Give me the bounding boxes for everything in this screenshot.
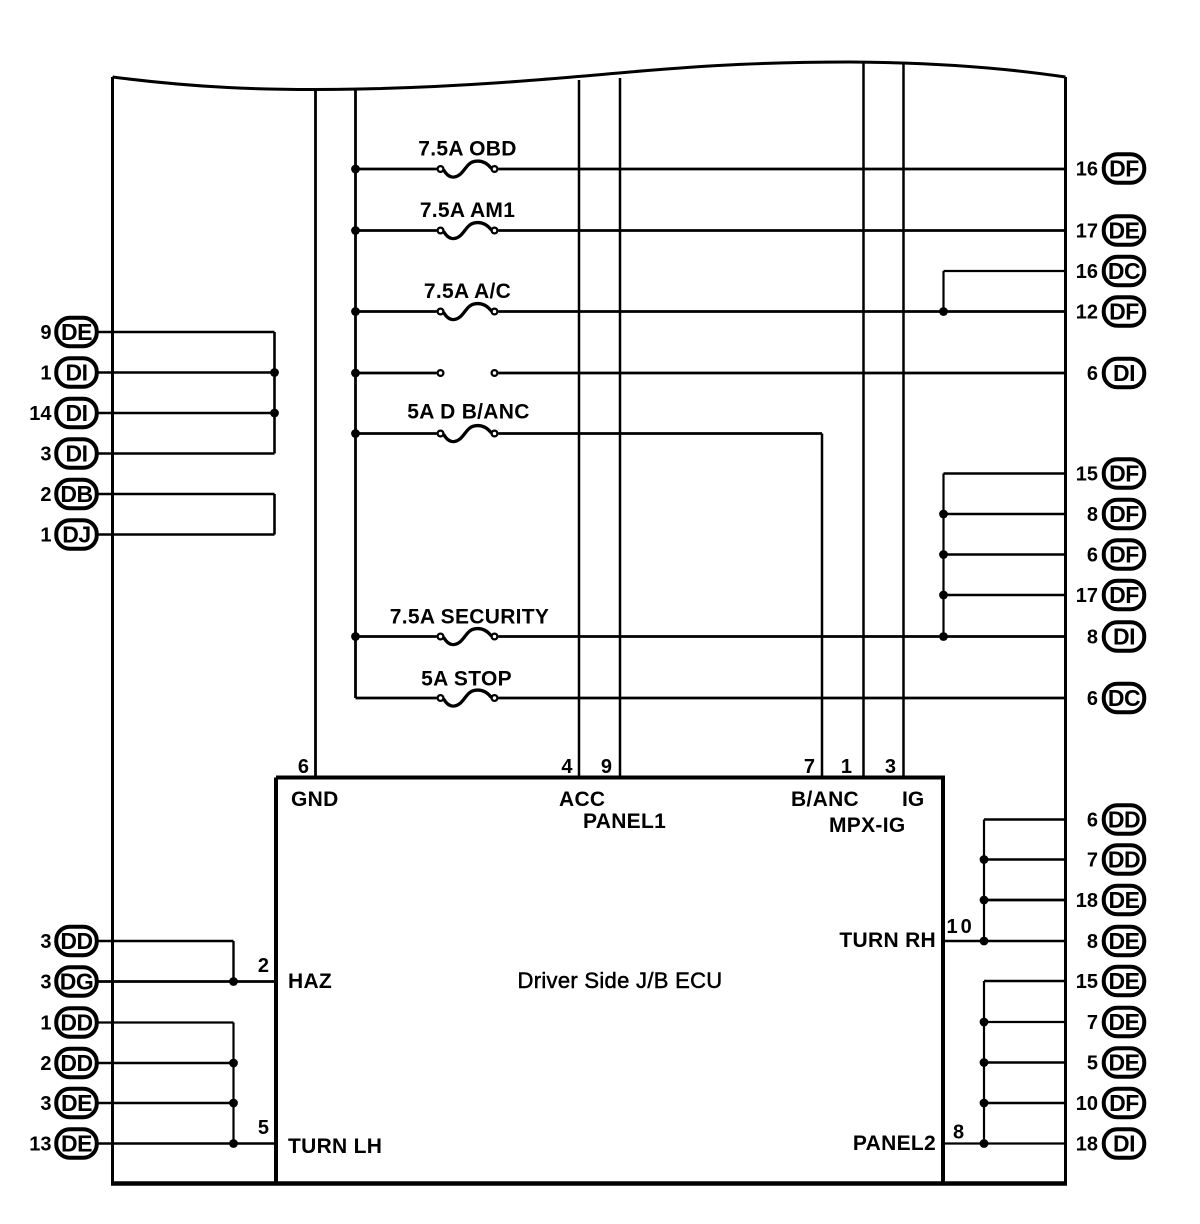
svg-text:10: 10 (947, 916, 975, 938)
svg-text:DC: DC (1108, 258, 1140, 284)
svg-text:DE: DE (61, 1090, 92, 1116)
svg-text:DI: DI (1113, 360, 1135, 386)
svg-text:DD: DD (60, 1050, 92, 1076)
svg-text:DI: DI (66, 441, 88, 467)
svg-text:13: 13 (29, 1134, 51, 1156)
svg-text:DD: DD (1108, 807, 1140, 833)
svg-text:16: 16 (1076, 261, 1098, 283)
svg-text:18: 18 (1076, 1134, 1098, 1156)
svg-text:DE: DE (1109, 1050, 1140, 1076)
svg-text:1: 1 (841, 756, 852, 778)
svg-text:TURN RH: TURN RH (839, 929, 936, 952)
svg-text:7.5A OBD: 7.5A OBD (418, 138, 516, 161)
svg-text:DB: DB (60, 481, 92, 507)
svg-text:7: 7 (1087, 850, 1098, 872)
svg-text:DG: DG (60, 969, 94, 995)
svg-text:16: 16 (1076, 159, 1098, 181)
svg-text:DC: DC (1108, 685, 1140, 711)
svg-text:DF: DF (1109, 299, 1139, 325)
svg-text:DI: DI (66, 360, 88, 386)
svg-text:5: 5 (258, 1117, 269, 1139)
svg-text:ACC: ACC (559, 788, 605, 811)
svg-text:14: 14 (29, 403, 52, 425)
svg-text:5A D B/ANC: 5A D B/ANC (407, 401, 529, 424)
svg-text:PANEL2: PANEL2 (853, 1132, 936, 1155)
svg-text:7.5A SECURITY: 7.5A SECURITY (390, 606, 550, 629)
svg-text:DE: DE (61, 1131, 92, 1157)
svg-text:6: 6 (1087, 810, 1098, 832)
svg-text:3: 3 (40, 444, 51, 466)
svg-text:3: 3 (885, 756, 896, 778)
svg-text:7.5A AM1: 7.5A AM1 (420, 199, 515, 222)
svg-text:6: 6 (1087, 688, 1098, 710)
svg-text:DI: DI (1113, 1131, 1135, 1157)
svg-text:DF: DF (1109, 542, 1139, 568)
svg-text:8: 8 (1087, 504, 1098, 526)
svg-text:9: 9 (601, 756, 612, 778)
svg-text:15: 15 (1076, 464, 1098, 486)
svg-text:9: 9 (40, 322, 51, 344)
svg-text:2: 2 (40, 1053, 51, 1075)
svg-text:DE: DE (1109, 1009, 1140, 1035)
svg-text:8: 8 (1087, 931, 1098, 953)
svg-text:2: 2 (258, 955, 269, 977)
svg-text:DF: DF (1109, 582, 1139, 608)
svg-text:4: 4 (561, 756, 573, 778)
svg-text:5: 5 (1087, 1053, 1098, 1075)
svg-text:6: 6 (1087, 363, 1098, 385)
svg-text:DE: DE (1109, 968, 1140, 994)
svg-text:7: 7 (804, 756, 815, 778)
svg-text:IG: IG (902, 788, 924, 811)
svg-text:17: 17 (1076, 585, 1098, 607)
svg-text:15: 15 (1076, 971, 1098, 993)
svg-text:12: 12 (1076, 302, 1098, 324)
svg-text:7: 7 (1087, 1012, 1098, 1034)
svg-text:HAZ: HAZ (288, 970, 332, 993)
svg-text:DF: DF (1109, 501, 1139, 527)
svg-text:DE: DE (61, 319, 92, 345)
svg-text:MPX-IG: MPX-IG (829, 814, 905, 837)
svg-text:DJ: DJ (62, 522, 90, 548)
svg-text:DD: DD (60, 1010, 92, 1036)
svg-text:PANEL1: PANEL1 (583, 810, 666, 833)
svg-text:DI: DI (66, 400, 88, 426)
svg-text:1: 1 (40, 1013, 51, 1035)
svg-text:6: 6 (1087, 545, 1098, 567)
svg-text:18: 18 (1076, 890, 1098, 912)
svg-text:5A STOP: 5A STOP (421, 668, 512, 691)
svg-text:DD: DD (1108, 847, 1140, 873)
svg-text:DD: DD (60, 928, 92, 954)
svg-text:6: 6 (298, 756, 309, 778)
svg-text:3: 3 (40, 972, 51, 994)
svg-text:3: 3 (40, 1093, 51, 1115)
svg-text:Driver Side J/B ECU: Driver Side J/B ECU (518, 968, 723, 993)
svg-text:DE: DE (1109, 928, 1140, 954)
svg-text:TURN LH: TURN LH (288, 1135, 382, 1158)
svg-text:3: 3 (40, 931, 51, 953)
svg-text:8: 8 (1087, 627, 1098, 649)
svg-text:DE: DE (1109, 218, 1140, 244)
svg-text:B/ANC: B/ANC (791, 788, 859, 811)
svg-text:GND: GND (291, 788, 339, 811)
svg-text:DF: DF (1109, 461, 1139, 487)
svg-text:DI: DI (1113, 624, 1135, 650)
svg-text:2: 2 (40, 484, 51, 506)
svg-text:DF: DF (1109, 1090, 1139, 1116)
svg-text:8: 8 (953, 1122, 964, 1144)
svg-text:10: 10 (1076, 1093, 1098, 1115)
svg-text:1: 1 (40, 363, 51, 385)
svg-text:7.5A A/C: 7.5A A/C (424, 280, 511, 303)
svg-text:DF: DF (1109, 156, 1139, 182)
svg-text:1: 1 (40, 525, 51, 547)
svg-text:17: 17 (1076, 221, 1098, 243)
svg-text:DE: DE (1109, 887, 1140, 913)
